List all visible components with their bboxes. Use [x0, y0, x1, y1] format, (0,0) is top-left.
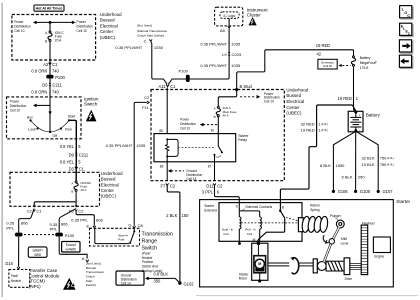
- wire: IC logic to A5: [228, 18, 230, 26]
- wire label 0.8 BLK 350: [154, 272, 169, 284]
- battery: [348, 111, 380, 133]
- svg-text:Shift: Shift: [341, 237, 347, 241]
- svg-text:0.8 YEL: 0.8 YEL: [60, 160, 75, 165]
- svg-text:Cell 10: Cell 10: [77, 29, 87, 33]
- note arrow to Power Distribution (B stud): [240, 95, 260, 99]
- svg-text:C2: C2: [78, 208, 84, 213]
- switch detent arc: [31, 120, 69, 132]
- svg-text:0.35 PPL/WHT: 0.35 PPL/WHT: [116, 45, 143, 50]
- flywheel ring gear: [361, 221, 375, 274]
- svg-text:C2: C2: [27, 209, 33, 214]
- svg-text:(Manual Transmission: (Manual Transmission: [137, 29, 168, 33]
- svg-text:M: M: [253, 238, 256, 242]
- contact Acc: [27, 115, 33, 121]
- svg-text:(4.3L): (4.3L): [321, 128, 328, 132]
- svg-text:19 RED: 19 RED: [338, 96, 352, 101]
- pin F7 C2: [161, 183, 176, 188]
- wire: start feed down to UBEC 2: [75, 139, 77, 181]
- svg-text:G102: G102: [184, 282, 195, 287]
- starter solenoid box: [219, 203, 302, 242]
- svg-text:Cell 10: Cell 10: [14, 29, 24, 33]
- svg-text:C: C: [407, 13, 410, 18]
- svg-text:C2: C2: [170, 184, 176, 189]
- UBEC box 1 (top): [12, 15, 96, 61]
- svg-text:806: 806: [96, 218, 103, 223]
- svg-text:4WD: 4WD: [34, 253, 42, 257]
- svg-text:C211: C211: [52, 82, 62, 87]
- wire: instrument cluster branch to A11 junction: [168, 29, 229, 85]
- svg-text:C1: C1: [79, 167, 85, 172]
- terminal M: [253, 238, 260, 245]
- note Power Distribution Cell 10 (top right corner): [264, 92, 280, 104]
- wire: contacts to M terminal: [258, 218, 285, 241]
- svg-text:(Not Used): (Not Used): [137, 24, 152, 28]
- svg-text:A: A: [82, 256, 85, 261]
- wire: relay 87 to D11: [214, 162, 216, 181]
- plunger: [330, 214, 344, 228]
- svg-text:740: 740: [52, 90, 60, 95]
- svg-text:87: 87: [208, 164, 212, 168]
- svg-text:Bussed: Bussed: [101, 177, 116, 182]
- fuse CRANK 10 A: [71, 181, 91, 194]
- svg-text:Start: Start: [68, 115, 76, 119]
- wire: relay 86 to F7: [166, 162, 168, 181]
- svg-text:806: 806: [21, 221, 28, 226]
- UBEC box 2 (crank fuse): [10, 172, 100, 206]
- svg-text:PPL: PPL: [6, 226, 14, 231]
- armature shaft: [268, 263, 313, 266]
- lever rotation arrow: [323, 235, 328, 243]
- pin D11 C2: [206, 183, 223, 188]
- svg-text:(TCCM): (TCCM): [29, 279, 45, 284]
- svg-text:Run: Run: [65, 128, 72, 132]
- nav button next (right arrow): [399, 40, 413, 54]
- svg-text:Battery: Battery: [360, 56, 371, 60]
- transmission range switch box: [90, 228, 140, 246]
- svg-text:Power: Power: [77, 20, 87, 24]
- svg-text:MegaFuse: MegaFuse: [360, 61, 376, 65]
- svg-text:1035: 1035: [154, 45, 164, 50]
- svg-text:G108: G108: [360, 189, 371, 194]
- wire label 3 PPL 6: [202, 189, 220, 194]
- svg-text:32 BLK: 32 BLK: [361, 156, 374, 161]
- pin 85 / pin 30 labels: [159, 129, 214, 134]
- wire label 0.35 PPL/WHT 1035 (TRS wire): [106, 143, 146, 148]
- ignition switch box: [7, 97, 82, 139]
- svg-text:0.35 PPL/WHT: 0.35 PPL/WHT: [200, 63, 227, 68]
- TCCM park/neutral box: [9, 270, 30, 288]
- nav button prev (left arrow): [399, 55, 413, 69]
- wire: C2/C1 to P100 to TCCM D16 (0.35 PPL 806): [19, 209, 35, 267]
- svg-text:C203: C203: [232, 52, 242, 57]
- label Pull-In Coil: [245, 227, 256, 236]
- relay mech link dashes: [178, 147, 214, 149]
- svg-text:Cell 14: Cell 14: [186, 177, 196, 181]
- fuse IGN C 20 A: [45, 31, 64, 44]
- svg-text:Switch: Switch: [142, 246, 158, 252]
- shaft rotation symbol: [290, 257, 298, 274]
- wire label 8 BLK 1550: [320, 163, 345, 168]
- svg-text:Park/: Park/: [11, 274, 20, 278]
- svg-text:Switch: Switch: [84, 102, 98, 107]
- instrument cluster box: [215, 7, 243, 26]
- svg-text:(UBEC): (UBEC): [286, 111, 302, 116]
- wire: feed into switch rotor: [49, 97, 52, 133]
- svg-text:A: A: [71, 181, 73, 185]
- pull-in coil: [239, 211, 261, 241]
- wire: fuse B down through A2 C1 to P100: [49, 41, 51, 74]
- svg-text:w/4WD: w/4WD: [66, 248, 77, 252]
- svg-text:(2.2L): (2.2L): [387, 156, 394, 160]
- meshing spring: [326, 261, 344, 271]
- nav button LOC: [400, 6, 414, 20]
- engine block: [373, 237, 390, 258]
- svg-text:A5: A5: [220, 28, 226, 33]
- svg-text:Hold - In: Hold - In: [222, 227, 234, 231]
- svg-text:1035: 1035: [231, 41, 241, 46]
- svg-text:32 RED: 32 RED: [301, 122, 315, 127]
- svg-text:C211: C211: [79, 153, 89, 158]
- contact Start: [68, 115, 76, 122]
- svg-text:Cell 30: Cell 30: [323, 64, 332, 68]
- svg-text:Center: Center: [101, 188, 115, 193]
- svg-text:B Stud: B Stud: [240, 84, 253, 89]
- wire: F11 to TRS pin G (0.35 PPL/WHT 1035): [134, 102, 147, 225]
- wire label 19 BLK 750 (4.3L): [361, 162, 393, 167]
- wire label 0.8 YEL 5 (2): [60, 160, 82, 165]
- svg-text:C8: C8: [138, 223, 144, 228]
- connector P100 (left half): [15, 233, 23, 237]
- wire label 19 RED 42: [316, 43, 330, 56]
- note arrow to Power Distribution (fuse B wire): [200, 123, 219, 127]
- svg-text:+: +: [359, 114, 361, 118]
- label Starter Motor: [239, 273, 250, 281]
- svg-text:D11: D11: [206, 184, 214, 189]
- relay coil (zigzag + frame): [166, 138, 179, 161]
- svg-text:P100: P100: [179, 69, 189, 74]
- wire: pin C down to A11 junction (0.35 PPL/WHT 1035): [151, 42, 167, 84]
- svg-text:Drive: Drive: [345, 277, 353, 281]
- pin A11 C1: [159, 84, 177, 89]
- wire: crank fuse B to bottom pins: [34, 191, 76, 206]
- note Power Distribution Cell 10 (ignition): [10, 99, 27, 112]
- svg-text:Clutch Start Switch): Clutch Start Switch): [137, 34, 164, 38]
- wire: A11 to relay coil 85: [166, 88, 168, 134]
- pin C (clutch start switch): [144, 39, 152, 44]
- UBEC label (box 3): [286, 87, 308, 115]
- svg-text:Electrical: Electrical: [100, 23, 118, 28]
- wire label 19 RED 1 (4.3L): [301, 128, 328, 133]
- svg-text:8 BLK: 8 BLK: [320, 163, 331, 168]
- label Hot At All Times: [34, 5, 64, 11]
- connector P100 (inline): [46, 75, 65, 80]
- svg-text:®: ®: [375, 61, 377, 64]
- svg-text:19 RED: 19 RED: [316, 43, 330, 48]
- shift lever: [324, 227, 339, 262]
- svg-text:(UBEC): (UBEC): [100, 35, 116, 40]
- label Starter Solenoid: [204, 204, 217, 213]
- note Power Distribution Cell 10 (mid): [180, 118, 196, 131]
- svg-text:Center: Center: [100, 29, 114, 34]
- svg-text:Underhood: Underhood: [100, 12, 122, 17]
- node: bus junction in UBEC: [49, 21, 52, 24]
- svg-text:Power: Power: [14, 20, 24, 24]
- wire: TRS ground branch to G102 (0.8 BLK 350): [145, 277, 180, 283]
- wire label 0.35 PPL/WHT 1035 (lower): [200, 63, 241, 68]
- svg-text:Cell 10: Cell 10: [264, 100, 274, 104]
- svg-text:0.35 PPL/WHT: 0.35 PPL/WHT: [106, 143, 133, 148]
- wire: junction to fuse: [49, 22, 51, 31]
- label Hold-In Coil: [222, 227, 234, 236]
- svg-text:A2: A2: [43, 62, 49, 67]
- svg-text:Bussed: Bussed: [100, 18, 115, 23]
- solenoid contact and blade: [279, 210, 285, 219]
- UBEC label (box 2): [101, 171, 123, 199]
- svg-text:740: 740: [52, 69, 60, 74]
- note (Not Used)(Manual Transmission Clutch Start Switch) top: [137, 24, 168, 38]
- svg-text:Battery: Battery: [366, 113, 381, 118]
- hold-in coil: [238, 208, 241, 245]
- note (Not Used) Manual Transmission Clutch Start Switch): [86, 262, 105, 288]
- svg-text:B: B: [71, 190, 73, 194]
- svg-text:0.8 ORN: 0.8 ORN: [31, 90, 47, 95]
- page left border: [1, 3, 3, 297]
- label Ignition Switch: [84, 97, 99, 107]
- svg-text:3 PPL: 3 PPL: [202, 189, 214, 194]
- svg-text:M: M: [258, 262, 261, 266]
- svg-text:(NP1): (NP1): [29, 284, 41, 289]
- svg-text:Starter: Starter: [204, 204, 215, 208]
- svg-text:D5: D5: [42, 82, 48, 87]
- svg-text:Coil: Coil: [223, 232, 229, 236]
- svg-text:Flywheel: Flywheel: [362, 221, 375, 225]
- svg-text:D3: D3: [69, 167, 75, 172]
- connector L9 C203: [222, 52, 242, 57]
- svg-text:Lock: Lock: [28, 128, 36, 132]
- svg-text:Distribution: Distribution: [77, 25, 94, 29]
- svg-text:Transmission: Transmission: [142, 231, 173, 237]
- mech dashes blade to plunger: [286, 217, 301, 221]
- UBEC box 3 (starter relay): [151, 90, 284, 181]
- mech dashes coils to plunger: [241, 222, 299, 224]
- svg-text:Underhood: Underhood: [286, 87, 308, 92]
- ground G102: [178, 281, 194, 286]
- svg-text:1035: 1035: [231, 63, 241, 68]
- svg-text:806: 806: [61, 222, 68, 227]
- wire: battery to G107: [357, 132, 394, 194]
- contact Run: [60, 127, 72, 131]
- connector P100 (on PPL/WHT run): [179, 69, 190, 82]
- svg-text:C1: C1: [36, 209, 42, 214]
- svg-text:19 RED: 19 RED: [301, 128, 315, 133]
- note Power Distribution Cell 10 (right): [77, 20, 94, 33]
- svg-text:G106: G106: [338, 189, 349, 194]
- wire label 2 BLK 150: [166, 213, 189, 218]
- svg-text:30: 30: [211, 129, 215, 133]
- svg-text:B: B: [45, 40, 47, 44]
- svg-text:A11: A11: [159, 84, 167, 89]
- pin D16 (TCCM): [5, 261, 20, 269]
- label Instrument Cluster: [247, 7, 269, 17]
- svg-text:P100: P100: [65, 233, 75, 238]
- svg-text:Plunger: Plunger: [330, 214, 342, 218]
- svg-text:Cell 10: Cell 10: [10, 109, 20, 113]
- svg-text:Distribution: Distribution: [14, 25, 31, 29]
- svg-text:350: 350: [154, 278, 162, 283]
- svg-text:Electrical: Electrical: [101, 182, 119, 187]
- svg-text:2 BLK: 2 BLK: [166, 213, 177, 218]
- svg-text:A: A: [214, 107, 216, 111]
- svg-text:(2.2L): (2.2L): [321, 122, 328, 126]
- wire: arrow to power distribution: [33, 104, 50, 108]
- wire label 0.8 ORN 740 (2): [31, 90, 59, 95]
- svg-text:PPL: PPL: [50, 227, 58, 232]
- label Shift Lever: [341, 237, 350, 246]
- svg-text:Cluster: Cluster: [247, 13, 261, 18]
- pin G C8 (transmission range switch): [128, 223, 143, 228]
- ESD warning triangle (TCCM): [63, 278, 76, 290]
- contact Lock: [28, 127, 38, 131]
- starter box: [200, 200, 394, 287]
- svg-text:C: C: [144, 39, 147, 44]
- svg-text:Cell 10: Cell 10: [180, 126, 190, 130]
- starter relay box: [154, 134, 249, 162]
- svg-text:Off: Off: [52, 134, 57, 138]
- wire label 32 RED 1 (2.2L): [301, 122, 328, 127]
- svg-text:Cell 14: Cell 14: [121, 281, 131, 285]
- svg-text:Lever: Lever: [341, 242, 350, 246]
- svg-text:Engine: Engine: [374, 254, 384, 258]
- svg-text:C1: C1: [170, 84, 176, 89]
- svg-text:Control Module: Control Module: [29, 273, 60, 278]
- battery megafuse: [351, 50, 377, 70]
- wire: battery to G108: [354, 132, 371, 194]
- svg-text:20 A: 20 A: [55, 39, 62, 43]
- pin C2 C1: [27, 205, 43, 213]
- svg-text:Coil: Coil: [247, 232, 253, 236]
- wire label 0.35 PPL / 806: [6, 221, 28, 231]
- wire: megafuse to battery +: [354, 66, 356, 111]
- IC Logic box: [220, 12, 239, 19]
- svg-text:F7: F7: [161, 184, 167, 189]
- wire label 0.8 YEL 5: [60, 144, 82, 149]
- svg-text:0.8 ORN: 0.8 ORN: [31, 69, 47, 74]
- wire: fuse B to relay 30: [217, 117, 219, 134]
- wire: B stud down to IGN A fuse: [218, 91, 236, 107]
- wire label 0.35 PPL 806 (E wire): [71, 218, 103, 223]
- svg-text:0.35 PPL: 0.35 PPL: [71, 218, 88, 223]
- svg-text:P100: P100: [55, 75, 65, 80]
- wire: F5/C2 branch right to TRS pin E: [76, 210, 94, 225]
- wire label 0.8 ORN 740: [31, 69, 59, 74]
- svg-text:IC Logic: IC Logic: [223, 14, 235, 18]
- svg-text:Spring: Spring: [310, 208, 319, 212]
- option box Except w/4WD: [62, 242, 80, 253]
- TRS internal wire E to contact: [94, 228, 129, 243]
- wire: B+ cable to starter solenoid B (32 RED / 19 RED): [280, 105, 355, 210]
- note Power Distribution Cell 10 (left): [14, 20, 31, 33]
- svg-text:10 A: 10 A: [80, 188, 86, 192]
- svg-text:175 A: 175 A: [360, 66, 369, 70]
- svg-text:5 BLK: 5 BLK: [341, 175, 352, 180]
- label Transmission Range Switch: [142, 231, 173, 272]
- ESD warning triangle (cluster): [249, 17, 257, 26]
- svg-text:42: 42: [317, 51, 322, 56]
- wire label 32 BLK 750 (2.2L): [361, 156, 393, 161]
- pin D3 C1: [69, 167, 85, 172]
- svg-text:G107: G107: [383, 189, 394, 194]
- svg-text:150: 150: [182, 213, 190, 218]
- wire: D11 to solenoid S (3 PPL 6): [215, 185, 240, 208]
- return spring: [298, 216, 328, 233]
- wire label 19 RED 1: [338, 96, 359, 101]
- wire: F7 to G102 (2 BLK 150): [167, 185, 180, 281]
- svg-text:Hot At All Times: Hot At All Times: [36, 6, 63, 10]
- wire: battery to G106 (8 BLK 1550): [332, 132, 355, 194]
- TRS switch blade (start pole): [129, 228, 135, 244]
- svg-text:1035: 1035: [136, 143, 146, 148]
- generator cell 30 box: [318, 59, 351, 69]
- shaft collar: [313, 259, 317, 273]
- svg-text:G: G: [128, 223, 131, 228]
- svg-text:250: 250: [358, 175, 365, 180]
- svg-text:(4.3L): (4.3L): [387, 162, 394, 166]
- pin A2 C1: [43, 62, 58, 67]
- svg-text:Electrical: Electrical: [286, 99, 304, 104]
- svg-text:Solenoid Contacts: Solenoid Contacts: [245, 205, 272, 209]
- svg-text:Acc: Acc: [27, 115, 33, 119]
- connector P100 (right half): [55, 233, 75, 238]
- svg-text:Motor: Motor: [239, 277, 248, 281]
- svg-text:0.35 PPL/WHT: 0.35 PPL/WHT: [200, 41, 227, 46]
- svg-text:85: 85: [159, 129, 163, 133]
- svg-text:Range: Range: [142, 238, 158, 244]
- svg-text:L9: L9: [222, 52, 227, 57]
- svg-text:0.8 YEL: 0.8 YEL: [60, 144, 75, 149]
- label Start Pole: [118, 234, 128, 242]
- ground distribution cell 14 box: [116, 271, 144, 285]
- svg-text:B: B: [214, 115, 216, 119]
- pinion shaft splines: [350, 263, 361, 269]
- svg-text:19 BLK: 19 BLK: [361, 162, 374, 167]
- relay switch contacts: [214, 134, 223, 162]
- svg-text:(UBEC): (UBEC): [101, 194, 117, 199]
- wire: B stud riser to 19 RED run: [237, 50, 354, 89]
- P100 mate dashes: [24, 234, 54, 236]
- wire label 0.35 PPL / 806 (middle): [50, 222, 69, 232]
- drive pinion: [344, 258, 352, 281]
- svg-text:Power: Power: [10, 99, 20, 103]
- wire: P100 to ignition switch: [49, 79, 51, 97]
- svg-text:Starter: Starter: [396, 199, 410, 204]
- wire: P100 down to clutch start switch A: [59, 237, 87, 259]
- svg-text:Solenoid: Solenoid: [204, 209, 217, 213]
- note arrow Ground Distribution Cell 14: [168, 169, 203, 181]
- connector D9 C211: [69, 153, 89, 158]
- page bottom border: [196, 295, 418, 297]
- starter motor assembly: [252, 243, 268, 282]
- pin F5 C2: [69, 205, 84, 213]
- fuse IGN A Maxi Fuse 40 A: [214, 106, 237, 119]
- wire: bus arrows to Power Distribution (left and right): [33, 21, 76, 25]
- svg-text:Underhood: Underhood: [101, 171, 123, 176]
- wire label 0.35 PPL/WHT 1035: [116, 45, 164, 50]
- svg-text:Bussed: Bussed: [286, 93, 301, 98]
- svg-text:86: 86: [160, 164, 164, 168]
- node B Stud: [235, 84, 252, 91]
- nav button ELEC: [400, 23, 414, 37]
- svg-text:1550: 1550: [336, 163, 346, 168]
